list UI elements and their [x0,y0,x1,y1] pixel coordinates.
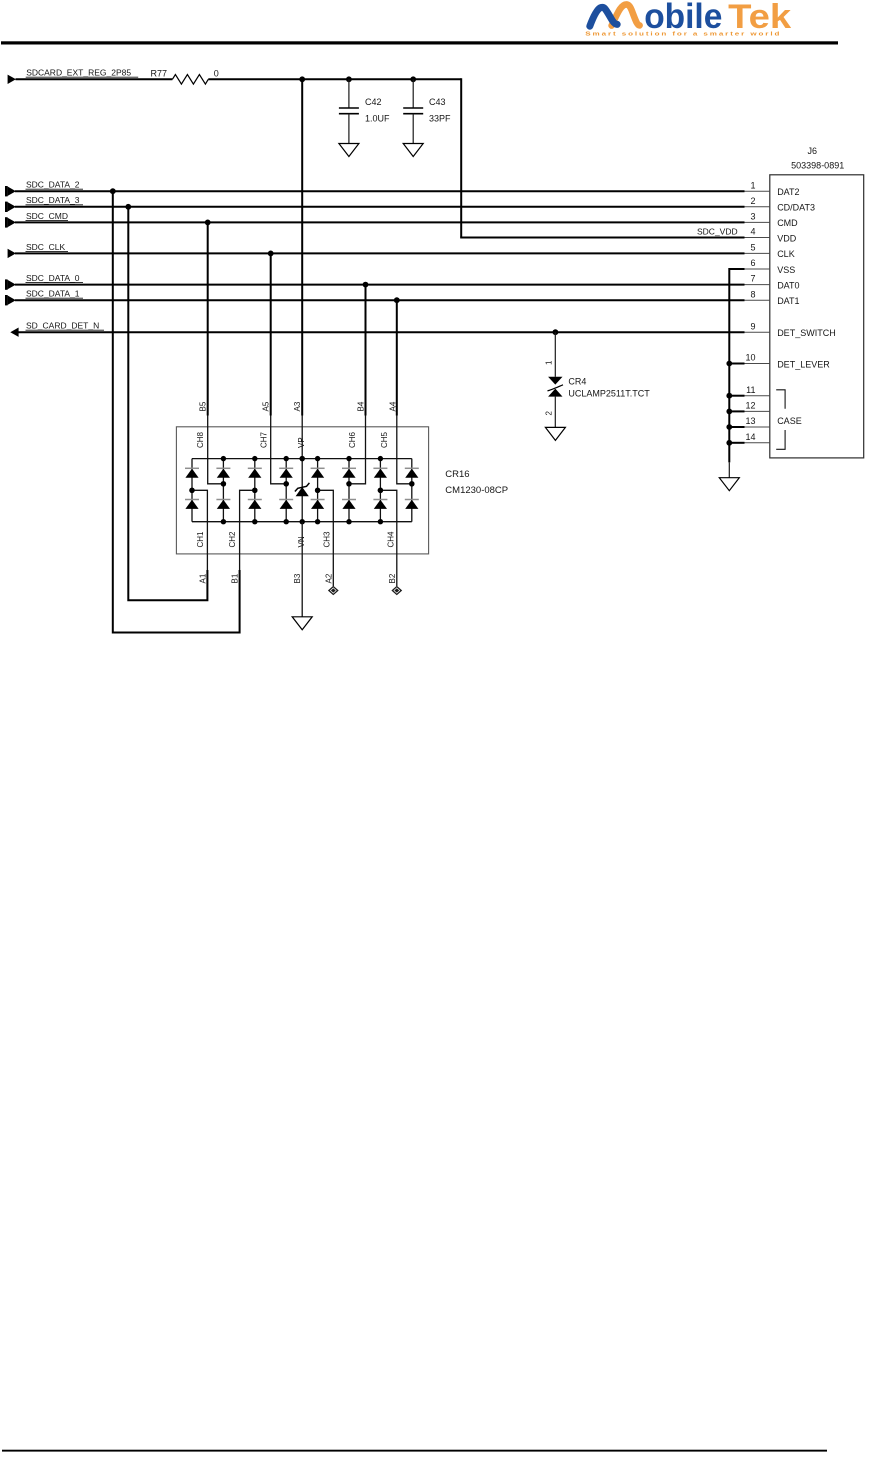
junction SDC_DATA_2 / CR16 B1 drop [110,188,116,194]
svg-text:CH7: CH7 [260,431,269,448]
junction SDC_VDD / CR16 VP [299,76,305,82]
svg-text:0: 0 [214,68,219,78]
wire SD_CARD_DET_N [19,331,745,333]
svg-text:obile: obile [644,0,722,36]
CR16 VN bottom rail [192,521,412,523]
svg-text:CMD: CMD [777,218,798,228]
junction SDC_CLK / CR16 A5 drop [268,251,274,257]
ground (CR4) [545,427,565,440]
svg-text:SDCARD_EXT_REG_2P85: SDCARD_EXT_REG_2P85 [26,68,131,78]
svg-text:CASE: CASE [777,416,802,426]
svg-text:11: 11 [746,385,755,395]
TVS diode CR4 [548,332,564,427]
svg-text:CH6: CH6 [348,431,357,448]
wire SDC_DATA_0 [15,284,745,286]
junction VSS rail / pin 10 [726,361,732,367]
svg-text:UCLAMP2511T.TCT: UCLAMP2511T.TCT [568,389,650,399]
junction VSS rail / pin 13 [726,424,732,430]
svg-text:J6: J6 [808,146,818,156]
J6 pin 13 (CASE) [745,416,770,427]
ground (C43) [403,144,423,157]
junction CH7 mid node [284,481,289,486]
svg-text:33PF: 33PF [429,113,451,123]
junction CH8 mid node [221,481,226,486]
J6 CASE bracket [776,390,802,450]
svg-text:A4: A4 [389,401,398,411]
svg-text:VDD: VDD [777,233,797,243]
svg-text:2: 2 [545,411,554,416]
svg-text:B1: B1 [231,573,240,583]
junction SD_CARD_DET_N / CR4 [553,329,559,335]
svg-text:CR4: CR4 [568,376,586,386]
svg-text:SD_CARD_DET_N: SD_CARD_DET_N [26,321,99,331]
svg-text:SDC_DATA_3: SDC_DATA_3 [26,195,80,205]
svg-text:DAT2: DAT2 [777,187,799,197]
svg-text:6: 6 [750,258,755,268]
svg-text:A3: A3 [293,401,302,411]
wire CR16 CH3 to pin A2 [318,490,334,586]
junction SDC_DATA_0 / CR16 B4 drop [363,282,369,288]
junction VSS rail / pin 11 [726,393,732,399]
svg-text:7: 7 [750,274,755,284]
logo MobileTek [585,0,791,38]
wire SDC_DATA_2 to CR16 pin B1 (CH2) [113,191,255,632]
port SDC_DATA_0 [5,273,83,290]
port SDC_DATA_3 [5,195,83,212]
wire SDC_CLK [15,252,745,254]
CR16 VP top rail [192,458,412,460]
J6 pin 3 (CMD) [745,212,799,229]
svg-text:VN: VN [297,536,306,547]
svg-text:3: 3 [750,212,755,222]
diode pair CH5 (column 8) [405,459,419,522]
svg-text:12: 12 [745,401,755,411]
svg-text:SDC_DATA_2: SDC_DATA_2 [26,180,80,190]
svg-text:A2: A2 [324,573,333,583]
svg-text:CR16: CR16 [445,469,469,480]
port SDC_DATA_1 [5,289,83,306]
J6 pin 11 (CASE) [745,385,770,396]
wire CR16 VN (pin B3) to ground [301,522,303,617]
net label SDC_VDD [697,226,738,236]
connector J6 body [770,175,864,458]
J6 pin 10 (DET_LEVER) [745,353,831,370]
junction CH1 mid node [189,488,194,493]
svg-text:Tek: Tek [728,0,791,36]
capacitor C42 [339,79,390,143]
svg-text:CH3: CH3 [322,531,331,548]
svg-text:SDC_DATA_0: SDC_DATA_0 [26,273,80,283]
J6 pin 14 (CASE) [745,432,770,443]
diode pair CH1 (column 1) [185,459,199,522]
junction SDC_DATA_1 / CR16 A4 drop [394,297,400,303]
junction SDC_VDD / C42 [346,76,352,82]
J6 pin 7 (DAT0) [745,274,800,291]
svg-text:SDC_VDD: SDC_VDD [697,226,738,236]
svg-text:VP: VP [297,437,306,448]
wire SDC_DATA_3 to CR16 pin A1 (CH1) [128,207,207,601]
J6 pin 2 (CD/DAT3) [745,196,816,213]
svg-text:CH4: CH4 [387,531,396,548]
junction CH6 mid node [346,481,351,486]
wire SDC_CLK to CR16 pin A5 (CH7) [271,253,287,483]
junction CH5 mid node [409,481,414,486]
svg-text:CD/DAT3: CD/DAT3 [777,203,815,213]
J6 pin 9 (DET_SWITCH) [745,321,836,338]
port SDC_DATA_2 [5,180,83,197]
svg-text:SDC_CLK: SDC_CLK [26,242,66,252]
wire SDC_DATA_3 [15,206,745,208]
wire SDC_VDD to CR16 VP (pin A3) [301,79,303,458]
port SD_CARD_DET_N [10,321,104,337]
zener diode VP-VN (CR16 center) [295,456,310,525]
svg-text:C42: C42 [365,97,382,107]
svg-text:B4: B4 [357,401,366,411]
svg-text:A1: A1 [198,573,207,583]
svg-text:4: 4 [750,227,755,237]
wire SDC_DATA_1 to CR16 pin A4 (CH5) [397,300,412,484]
capacitor C43 [403,79,451,143]
svg-text:CM1230-08CP: CM1230-08CP [445,485,508,496]
svg-text:B5: B5 [199,401,208,411]
svg-text:1.0UF: 1.0UF [365,113,390,123]
ground (C42) [339,144,359,157]
port SDC_CLK [8,242,68,258]
svg-text:9: 9 [750,321,755,331]
wire SDC_CMD to CR16 pin B5 (CH8) [208,222,224,483]
svg-text:DAT0: DAT0 [777,280,799,290]
junction CH2 mid node [252,488,257,493]
diode pair CH8 (column 2) [216,456,230,525]
svg-text:R77: R77 [151,68,168,78]
svg-text:CH8: CH8 [196,431,205,448]
wire SDCARD_EXT_REG_2P85 to R77 [16,78,173,80]
wire CR16 CH4 to pin B2 [380,490,396,586]
wire SDC_DATA_1 [15,299,745,301]
J6 pin 4 (VDD) [745,227,797,244]
junction SDC_VDD / C43 [410,76,416,82]
svg-text:10: 10 [745,353,755,363]
diode pair CH2 (column 3) [248,456,262,525]
ground (VSS rail) [719,478,739,491]
ESD array CR16 body [176,427,428,554]
svg-text:Smart solution for a smarter w: Smart solution for a smarter world [585,32,781,38]
svg-text:8: 8 [750,289,755,299]
svg-text:SDC_DATA_1: SDC_DATA_1 [26,289,80,299]
port SDCARD_EXT_REG_2P85 [8,68,139,84]
svg-text:13: 13 [745,416,755,426]
junction CH4 mid node [378,488,383,493]
svg-text:A5: A5 [262,401,271,411]
no-connect marker A2 [328,586,339,596]
port SDC_CMD [5,211,68,228]
svg-text:1: 1 [750,180,755,190]
wire VSS rail (J6 pin 6 to ground) [729,268,744,478]
svg-text:CH5: CH5 [380,431,389,448]
diode pair CH7 (column 4) [279,456,293,525]
junction VSS rail / pin 14 [726,440,732,446]
svg-text:14: 14 [745,432,755,442]
svg-text:CH1: CH1 [196,531,205,548]
wire SDC_VDD net (R77 to J6 pin 4) [208,78,744,237]
J6 pin 6 (VSS) [745,258,796,275]
junction VSS rail / pin 12 [726,409,732,415]
wire SDC_CMD [15,221,745,223]
diode pair CH4 (column 7) [373,456,387,525]
junction SDC_CMD / CR16 B5 drop [205,220,211,226]
svg-text:CLK: CLK [777,249,795,259]
wire SDC_DATA_2 [15,190,745,192]
svg-text:2: 2 [750,196,755,206]
svg-text:5: 5 [750,243,755,253]
junction CH3 mid node [315,488,320,493]
svg-text:B2: B2 [388,573,397,583]
svg-text:B3: B3 [293,573,302,583]
junction CR16 VP rail / A3 [300,456,305,461]
svg-text:C43: C43 [429,97,446,107]
svg-text:DET_LEVER: DET_LEVER [777,359,830,369]
resistor R77 [151,68,219,84]
diode pair CH6 (column 6) [342,456,356,525]
J6 pin 5 (CLK) [745,243,795,260]
diode pair CH3 (column 5) [311,456,325,525]
svg-text:1: 1 [545,360,554,365]
svg-text:VSS: VSS [777,265,795,275]
svg-text:DET_SWITCH: DET_SWITCH [777,328,836,338]
svg-text:DAT1: DAT1 [777,296,799,306]
wire SDC_DATA_0 to CR16 pin B4 (CH6) [349,285,366,484]
J6 pin 12 (CASE) [745,401,770,412]
svg-text:503398-0891: 503398-0891 [791,161,844,171]
no-connect marker B2 [391,586,402,596]
J6 pin 1 (DAT2) [745,180,800,197]
J6 pin 8 (DAT1) [745,289,800,306]
ground (CR16 VN) [292,617,312,630]
svg-text:CH2: CH2 [228,531,237,548]
svg-text:SDC_CMD: SDC_CMD [26,211,68,221]
junction SDC_DATA_3 / CR16 A1 drop [125,204,131,210]
